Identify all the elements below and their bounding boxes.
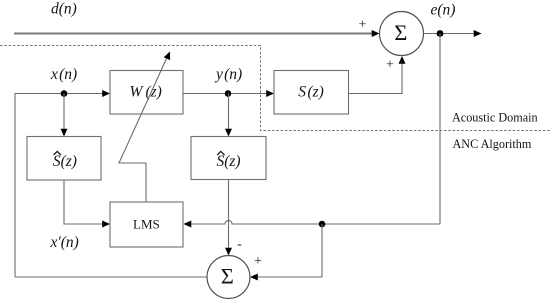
node at e(n) [437, 30, 444, 37]
block W(z) [110, 71, 183, 115]
block S(z) [274, 71, 349, 115]
svg-text:+: + [254, 254, 262, 269]
wire y(n) node down to Shat2 [228, 94, 230, 131]
wire LMS up with jog to adaptation arrow [119, 59, 167, 203]
dashed boundary acoustic/ANC domain [0, 46, 550, 131]
block LMS [110, 202, 183, 247]
svg-text:d(n): d(n) [51, 1, 77, 18]
arrowhead up into SUM1 [399, 56, 406, 64]
arrowhead into Shat1 top [61, 129, 68, 137]
wire from S(z) up to SUM1 bottom [349, 60, 403, 94]
svg-text:Acoustic Domain: Acoustic Domain [452, 110, 538, 124]
block Shat2 S^(z) right [191, 137, 266, 180]
svg-text:S(z): S(z) [298, 84, 324, 101]
svg-text:e(n): e(n) [431, 2, 456, 19]
wire y(n) from W(z) to S(z) [183, 93, 267, 95]
arrowhead into W(z) [102, 90, 110, 97]
svg-text:Σ: Σ [394, 20, 407, 45]
summing junction SUM2 [207, 256, 250, 299]
arrowhead into SUM2 right [250, 274, 258, 281]
arrowhead into Shat2 top [225, 129, 232, 137]
block Shat1 S^(z) left [27, 137, 101, 181]
wire x(n) input into W(z) [15, 93, 104, 95]
node at x(n) [61, 90, 68, 97]
wire Shat1 down and right into LMS left [64, 180, 103, 224]
arrowhead adaptation diagonal [164, 52, 170, 61]
wire Shat2 down to SUM2 top [228, 180, 230, 251]
arrowhead into SUM2 top [225, 248, 232, 256]
svg-text:y(n): y(n) [214, 66, 242, 83]
arrowhead e(n) output [474, 30, 482, 37]
wire x(n) node down to Shat1 [63, 94, 65, 131]
node at feedback branch [319, 221, 326, 228]
svg-text:LMS: LMS [133, 217, 160, 232]
svg-text:S(z): S(z) [53, 153, 77, 170]
wire left feedback vertical [14, 94, 16, 278]
svg-text:+: + [386, 58, 394, 73]
svg-text:-: - [237, 237, 242, 252]
arrowhead into LMS right [184, 221, 192, 228]
svg-text:W(z): W(z) [130, 84, 162, 101]
wire e(n) feedback horizontal to LMS with hop over vertical [190, 220, 440, 224]
arrowhead into LMS left [102, 221, 110, 228]
svg-text:x(n): x(n) [50, 66, 77, 83]
arrowhead into summing junction SUM1 left [372, 30, 380, 37]
svg-text:+: + [359, 18, 367, 33]
wire bottom feedback horizontal into SUM2 [15, 276, 208, 278]
svg-text:S(z): S(z) [216, 153, 240, 170]
wire e(n) output [424, 33, 475, 35]
arrowhead into S(z) [266, 90, 274, 97]
wire branch down from node to SUM2 right input [257, 224, 322, 277]
svg-text:ANC Algorithm: ANC Algorithm [453, 137, 532, 151]
summing junction SUM1 [380, 12, 424, 56]
svg-text:Σ: Σ [221, 264, 234, 289]
svg-text:x′(n): x′(n) [50, 234, 79, 251]
wire e(n) feedback vertical down [439, 34, 441, 225]
wire d(n) primary path line [14, 33, 372, 35]
node at y(n) [225, 90, 232, 97]
